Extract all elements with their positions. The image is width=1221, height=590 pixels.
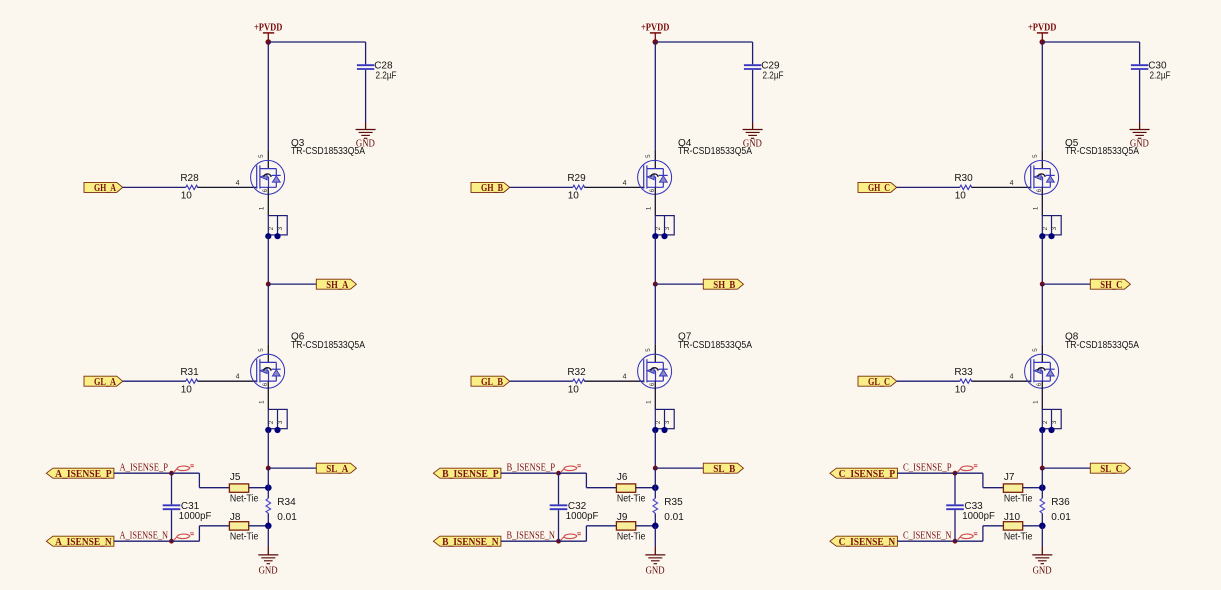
pin Q3 drain (pin 5) bbox=[267, 150, 269, 168]
svg-text:Net-Tie: Net-Tie bbox=[617, 532, 646, 543]
junction R34 top bbox=[265, 484, 272, 491]
port SL_A bbox=[316, 463, 356, 473]
junction SL_B node bbox=[653, 466, 658, 471]
svg-text:0.01: 0.01 bbox=[277, 512, 297, 523]
net tie J7 bbox=[1003, 484, 1022, 492]
svg-text:3: 3 bbox=[1051, 420, 1058, 424]
svg-text:Net-Tie: Net-Tie bbox=[230, 493, 259, 504]
wire R36 bottom to GND bbox=[1041, 526, 1043, 555]
wire R36 to J10 junction bbox=[1041, 513, 1043, 526]
svg-text:2: 2 bbox=[655, 226, 662, 230]
svg-text:TR-CSD18533Q5A: TR-CSD18533Q5A bbox=[678, 146, 752, 157]
svg-text:2: 2 bbox=[655, 420, 662, 424]
junction Q4 source pins bbox=[652, 233, 667, 239]
svg-text:A_ISENSE_P: A_ISENSE_P bbox=[120, 463, 169, 474]
transistor Q4 symbol bbox=[638, 160, 672, 194]
svg-text:0.01: 0.01 bbox=[1051, 512, 1071, 523]
svg-text:GL_B: GL_B bbox=[481, 377, 503, 388]
svg-text:3: 3 bbox=[277, 420, 284, 424]
svg-text:R33: R33 bbox=[954, 367, 973, 378]
svg-text:2.2µF: 2.2µF bbox=[1150, 71, 1171, 82]
power +PVDD (phase B) bbox=[641, 21, 670, 39]
ground GND (below C28) bbox=[356, 130, 376, 150]
svg-text:3: 3 bbox=[664, 226, 671, 230]
wire R35 to J9 junction bbox=[654, 513, 656, 526]
wire A_ISENSE_P port to junction bbox=[114, 472, 172, 474]
port GL_A bbox=[84, 376, 123, 386]
svg-text:R31: R31 bbox=[180, 367, 199, 378]
resistor R36 (shunt) bbox=[1040, 498, 1045, 513]
pin Q3 source (pin 1) bbox=[267, 187, 269, 215]
pin Q4 source (pin 1) bbox=[654, 187, 656, 215]
source pins 2-3 tie (Q8) bbox=[1042, 409, 1061, 428]
svg-text:SL_B: SL_B bbox=[713, 464, 735, 475]
net tie J5 bbox=[229, 484, 248, 492]
wire C28 to GND bbox=[365, 70, 367, 130]
wire GH_C to R30 bbox=[897, 186, 960, 188]
pin Q7 drain (pin 5) bbox=[654, 344, 656, 362]
port B_ISENSE_N bbox=[433, 536, 501, 546]
svg-text:2: 2 bbox=[1042, 226, 1049, 230]
wire J9 to R35 bottom bbox=[636, 525, 656, 527]
junction R36 bottom bbox=[1039, 523, 1046, 530]
svg-text:0.01: 0.01 bbox=[664, 512, 684, 523]
wire R35 bottom to GND bbox=[654, 526, 656, 555]
net tie J10 bbox=[1003, 522, 1022, 530]
differential pair directive (A_ISENSE_P) bbox=[174, 466, 190, 472]
junction R34 bottom bbox=[265, 523, 272, 530]
svg-text:10: 10 bbox=[181, 384, 193, 395]
differential pair directive (A_ISENSE_N) bbox=[174, 534, 190, 540]
capacitor C31 bbox=[163, 473, 181, 541]
wire A_ISENSE_P node to J5 bbox=[172, 473, 230, 488]
wire C_ISENSE_P port to junction bbox=[897, 472, 955, 474]
wire +PVDD node to Q5 drain bbox=[1041, 42, 1043, 150]
svg-text:SL_C: SL_C bbox=[1100, 464, 1122, 475]
port GH_C bbox=[858, 182, 897, 192]
svg-text:B_ISENSE_N: B_ISENSE_N bbox=[442, 537, 499, 548]
wire R30 to Q5 gate bbox=[971, 186, 1031, 188]
ground GND (below R36) bbox=[1032, 555, 1052, 577]
junction R36 top bbox=[1039, 484, 1046, 491]
svg-text:R35: R35 bbox=[664, 497, 683, 508]
svg-text:GH_B: GH_B bbox=[481, 183, 503, 194]
svg-text:GL_A: GL_A bbox=[94, 377, 116, 388]
source pins 2-3 tie (Q5) bbox=[1042, 216, 1061, 235]
wire GH_B to R29 bbox=[510, 186, 573, 188]
svg-text:+PVDD: +PVDD bbox=[254, 21, 283, 33]
wire C29 to GND bbox=[752, 70, 754, 130]
wire SH_B node to port bbox=[655, 283, 703, 285]
svg-text:TR-CSD18533Q5A: TR-CSD18533Q5A bbox=[1065, 340, 1139, 351]
svg-text:TR-CSD18533Q5A: TR-CSD18533Q5A bbox=[1065, 146, 1139, 157]
resistor R29 bbox=[573, 185, 585, 189]
svg-text:4: 4 bbox=[623, 180, 627, 187]
svg-text:TR-CSD18533Q5A: TR-CSD18533Q5A bbox=[291, 146, 365, 157]
transistor Q3 symbol bbox=[251, 160, 285, 194]
pin Q8 source (pin 1) bbox=[1041, 381, 1043, 409]
pin Q5 source (pin 1) bbox=[1041, 187, 1043, 215]
wire B_ISENSE_P port to junction bbox=[501, 472, 559, 474]
wire SL_B node to R35 bbox=[654, 468, 656, 498]
wire +PVDD node to C30 bbox=[1042, 42, 1139, 64]
junction +PVDD node C bbox=[1040, 39, 1046, 45]
junction A_ISENSE_N node bbox=[169, 539, 174, 544]
transistor Q7 symbol bbox=[638, 354, 672, 388]
resistor R31 bbox=[186, 379, 198, 383]
svg-text:R30: R30 bbox=[954, 173, 973, 184]
ground GND (below C30) bbox=[1130, 130, 1150, 150]
resistor R28 bbox=[186, 185, 198, 189]
svg-text:SH_C: SH_C bbox=[1100, 280, 1122, 291]
wire Q8 source to SL_C node bbox=[1041, 430, 1043, 468]
svg-text:GND: GND bbox=[259, 566, 278, 577]
junction SH_A node bbox=[266, 282, 271, 287]
junction Q5 source pins bbox=[1039, 233, 1054, 239]
port SH_B bbox=[703, 279, 743, 289]
port C_ISENSE_N bbox=[830, 536, 898, 546]
svg-text:J8: J8 bbox=[230, 512, 241, 523]
ground GND (below R34) bbox=[258, 555, 278, 577]
port SL_C bbox=[1090, 463, 1130, 473]
svg-text:10: 10 bbox=[568, 384, 580, 395]
svg-text:1000pF: 1000pF bbox=[179, 511, 212, 522]
wire Q6 source to SL_A node bbox=[267, 430, 269, 468]
junction SL_A node bbox=[266, 466, 271, 471]
wire SL_A node to R34 bbox=[267, 468, 269, 498]
svg-text:B_ISENSE_P: B_ISENSE_P bbox=[442, 469, 499, 480]
resistor R34 (shunt) bbox=[266, 498, 271, 513]
transistor Q5 symbol bbox=[1025, 160, 1059, 194]
svg-text:2.2µF: 2.2µF bbox=[763, 71, 784, 82]
svg-text:10: 10 bbox=[568, 191, 580, 202]
capacitor C29 bbox=[744, 65, 761, 69]
net tie J8 bbox=[229, 522, 248, 530]
wire +PVDD node to C29 bbox=[655, 42, 752, 64]
junction Q6 source pins bbox=[265, 427, 280, 433]
svg-text:J5: J5 bbox=[230, 472, 241, 483]
svg-text:TR-CSD18533Q5A: TR-CSD18533Q5A bbox=[291, 340, 365, 351]
pin Q4 drain (pin 5) bbox=[654, 150, 656, 168]
svg-text:Net-Tie: Net-Tie bbox=[1004, 532, 1033, 543]
wire R31 to Q6 gate bbox=[197, 380, 257, 382]
wire J10 to R36 bottom bbox=[1023, 525, 1043, 527]
svg-text:C_ISENSE_P: C_ISENSE_P bbox=[839, 469, 896, 480]
wire Q3 source to SH_A node bbox=[267, 236, 269, 284]
svg-text:GH_A: GH_A bbox=[94, 183, 116, 194]
pin Q6 source (pin 1) bbox=[267, 381, 269, 409]
capacitor C32 bbox=[550, 473, 568, 541]
wire SL_A node to port bbox=[268, 467, 316, 469]
svg-text:3: 3 bbox=[1051, 226, 1058, 230]
svg-text:B_ISENSE_P: B_ISENSE_P bbox=[507, 463, 556, 474]
svg-text:5: 5 bbox=[645, 154, 652, 158]
wire SH_C node to port bbox=[1042, 283, 1090, 285]
capacitor C33 bbox=[946, 473, 964, 541]
svg-text:4: 4 bbox=[236, 374, 240, 381]
wire B_ISENSE_N port to junction bbox=[501, 540, 559, 542]
port A_ISENSE_N bbox=[46, 536, 114, 546]
resistor R32 bbox=[573, 379, 585, 383]
wire GH_A to R28 bbox=[123, 186, 186, 188]
wire B_ISENSE_N node to J9 bbox=[559, 526, 617, 541]
wire SH_C node to Q8 drain bbox=[1041, 284, 1043, 344]
ground GND (below R35) bbox=[645, 555, 665, 577]
junction C_ISENSE_P node bbox=[953, 471, 958, 476]
svg-text:GND: GND bbox=[646, 566, 665, 577]
wire J6 to R35 top bbox=[636, 487, 656, 489]
capacitor C28 bbox=[357, 65, 374, 69]
port SH_A bbox=[316, 279, 356, 289]
svg-text:Net-Tie: Net-Tie bbox=[230, 532, 259, 543]
port GH_A bbox=[84, 182, 123, 192]
svg-text:4: 4 bbox=[1010, 374, 1014, 381]
port C_ISENSE_P bbox=[830, 468, 898, 478]
resistor R30 bbox=[960, 185, 972, 189]
svg-text:4: 4 bbox=[236, 180, 240, 187]
source pins 2-3 tie (Q6) bbox=[268, 409, 287, 428]
svg-text:TR-CSD18533Q5A: TR-CSD18533Q5A bbox=[678, 340, 752, 351]
junction R35 bottom bbox=[652, 523, 659, 530]
source pins 2-3 tie (Q3) bbox=[268, 216, 287, 235]
net tie J6 bbox=[616, 484, 635, 492]
wire R34 bottom to GND bbox=[267, 526, 269, 555]
svg-text:5: 5 bbox=[1032, 154, 1039, 158]
wire J8 to R34 bottom bbox=[249, 525, 269, 527]
junction Q3 source pins bbox=[265, 233, 280, 239]
port B_ISENSE_P bbox=[433, 468, 501, 478]
wire SL_C node to port bbox=[1042, 467, 1090, 469]
wire +PVDD node to Q3 drain bbox=[267, 42, 269, 150]
svg-text:J7: J7 bbox=[1004, 472, 1015, 483]
pin Q6 drain (pin 5) bbox=[267, 344, 269, 362]
wire SH_A node to Q6 drain bbox=[267, 284, 269, 344]
svg-text:5: 5 bbox=[645, 348, 652, 352]
svg-text:4: 4 bbox=[1010, 180, 1014, 187]
svg-text:10: 10 bbox=[955, 191, 967, 202]
svg-text:Net-Tie: Net-Tie bbox=[1004, 493, 1033, 504]
differential pair directive (B_ISENSE_N) bbox=[561, 534, 577, 540]
ground GND (below C29) bbox=[743, 130, 763, 150]
pin Q7 source (pin 1) bbox=[654, 381, 656, 409]
svg-text:J10: J10 bbox=[1004, 512, 1021, 523]
junction +PVDD node B bbox=[653, 39, 659, 45]
junction Q8 source pins bbox=[1039, 427, 1054, 433]
wire SL_C node to R36 bbox=[1041, 468, 1043, 498]
wire R28 to Q3 gate bbox=[197, 186, 257, 188]
wire C_ISENSE_P node to J7 bbox=[955, 473, 1003, 488]
source pins 2-3 tie (Q7) bbox=[655, 409, 674, 428]
wire Q7 source to SL_B node bbox=[654, 430, 656, 468]
pin Q5 drain (pin 5) bbox=[1041, 150, 1043, 168]
transistor Q8 symbol bbox=[1025, 354, 1059, 388]
wire J5 to R34 top bbox=[249, 487, 269, 489]
port GL_C bbox=[858, 376, 897, 386]
svg-text:2: 2 bbox=[1042, 420, 1049, 424]
wire R29 to Q4 gate bbox=[584, 186, 644, 188]
svg-text:SL_A: SL_A bbox=[326, 464, 348, 475]
svg-text:5: 5 bbox=[1032, 348, 1039, 352]
source pins 2-3 tie (Q4) bbox=[655, 216, 674, 235]
junction R35 top bbox=[652, 484, 659, 491]
wire C_ISENSE_N node to J10 bbox=[955, 526, 1003, 541]
svg-text:3: 3 bbox=[664, 420, 671, 424]
junction SH_B node bbox=[653, 282, 658, 287]
svg-text:R28: R28 bbox=[180, 173, 199, 184]
svg-text:4: 4 bbox=[623, 374, 627, 381]
wire Q5 source to SH_C node bbox=[1041, 236, 1043, 284]
junction Q7 source pins bbox=[652, 427, 667, 433]
svg-text:B_ISENSE_N: B_ISENSE_N bbox=[507, 531, 556, 542]
svg-text:SH_A: SH_A bbox=[326, 280, 348, 291]
svg-text:R29: R29 bbox=[567, 173, 586, 184]
wire +PVDD node to Q4 drain bbox=[654, 42, 656, 150]
net tie J9 bbox=[616, 522, 635, 530]
port SH_C bbox=[1090, 279, 1130, 289]
svg-text:C_ISENSE_N: C_ISENSE_N bbox=[839, 537, 896, 548]
wire SH_A node to port bbox=[268, 283, 316, 285]
wire A_ISENSE_N node to J8 bbox=[172, 526, 230, 541]
svg-text:2: 2 bbox=[268, 226, 275, 230]
junction SH_C node bbox=[1040, 282, 1045, 287]
resistor R35 (shunt) bbox=[653, 498, 658, 513]
svg-text:10: 10 bbox=[181, 191, 193, 202]
transistor Q6 symbol bbox=[251, 354, 285, 388]
svg-text:GL_C: GL_C bbox=[868, 377, 890, 388]
pin Q8 drain (pin 5) bbox=[1041, 344, 1043, 362]
differential pair directive (B_ISENSE_P) bbox=[561, 466, 577, 472]
svg-text:GH_C: GH_C bbox=[868, 183, 890, 194]
capacitor C30 bbox=[1131, 65, 1148, 69]
svg-text:C_ISENSE_P: C_ISENSE_P bbox=[903, 463, 952, 474]
resistor R33 bbox=[960, 379, 972, 383]
wire R33 to Q8 gate bbox=[971, 380, 1031, 382]
svg-text:+PVDD: +PVDD bbox=[1028, 21, 1057, 33]
differential pair directive (C_ISENSE_P) bbox=[958, 466, 974, 472]
junction C_ISENSE_N node bbox=[953, 539, 958, 544]
power +PVDD (phase A) bbox=[254, 21, 283, 39]
port GL_B bbox=[471, 376, 510, 386]
wire Q4 source to SH_B node bbox=[654, 236, 656, 284]
svg-text:1: 1 bbox=[258, 206, 265, 210]
svg-text:R36: R36 bbox=[1051, 497, 1070, 508]
svg-text:3: 3 bbox=[277, 226, 284, 230]
svg-text:+PVDD: +PVDD bbox=[641, 21, 670, 33]
junction +PVDD node A bbox=[266, 39, 272, 45]
svg-text:1: 1 bbox=[1032, 400, 1039, 404]
wire C_ISENSE_N port to junction bbox=[897, 540, 955, 542]
svg-text:10: 10 bbox=[955, 384, 967, 395]
wire SL_B node to port bbox=[655, 467, 703, 469]
svg-text:A_ISENSE_N: A_ISENSE_N bbox=[120, 531, 169, 542]
wire GL_B to R32 bbox=[510, 380, 573, 382]
svg-text:1: 1 bbox=[645, 400, 652, 404]
wire B_ISENSE_P node to J6 bbox=[559, 473, 617, 488]
svg-text:R32: R32 bbox=[567, 367, 586, 378]
svg-text:1: 1 bbox=[258, 400, 265, 404]
svg-text:Net-Tie: Net-Tie bbox=[617, 493, 646, 504]
svg-text:A_ISENSE_N: A_ISENSE_N bbox=[55, 537, 112, 548]
wire J7 to R36 top bbox=[1023, 487, 1043, 489]
wire GL_A to R31 bbox=[123, 380, 186, 382]
svg-text:J9: J9 bbox=[617, 512, 628, 523]
wire +PVDD node to C28 bbox=[268, 42, 365, 64]
junction B_ISENSE_P node bbox=[556, 471, 561, 476]
port GH_B bbox=[471, 182, 510, 192]
svg-text:SH_B: SH_B bbox=[713, 280, 735, 291]
svg-text:C_ISENSE_N: C_ISENSE_N bbox=[903, 531, 952, 542]
svg-text:5: 5 bbox=[258, 154, 265, 158]
wire C30 to GND bbox=[1139, 70, 1141, 130]
svg-text:GND: GND bbox=[1033, 566, 1052, 577]
wire SH_B node to Q7 drain bbox=[654, 284, 656, 344]
svg-text:2: 2 bbox=[268, 420, 275, 424]
svg-text:1000pF: 1000pF bbox=[962, 511, 995, 522]
junction SL_C node bbox=[1040, 466, 1045, 471]
svg-text:2.2µF: 2.2µF bbox=[376, 71, 397, 82]
junction B_ISENSE_N node bbox=[556, 539, 561, 544]
port A_ISENSE_P bbox=[46, 468, 114, 478]
power +PVDD (phase C) bbox=[1028, 21, 1057, 39]
junction A_ISENSE_P node bbox=[169, 471, 174, 476]
svg-text:J6: J6 bbox=[617, 472, 628, 483]
svg-text:1: 1 bbox=[1032, 206, 1039, 210]
differential pair directive (C_ISENSE_N) bbox=[958, 534, 974, 540]
svg-text:R34: R34 bbox=[277, 497, 296, 508]
wire GL_C to R33 bbox=[897, 380, 960, 382]
svg-text:1: 1 bbox=[645, 206, 652, 210]
wire R34 to J8 junction bbox=[267, 513, 269, 526]
wire A_ISENSE_N port to junction bbox=[114, 540, 172, 542]
port SL_B bbox=[703, 463, 743, 473]
wire R32 to Q7 gate bbox=[584, 380, 644, 382]
svg-text:1000pF: 1000pF bbox=[566, 511, 599, 522]
svg-text:A_ISENSE_P: A_ISENSE_P bbox=[55, 469, 112, 480]
svg-text:5: 5 bbox=[258, 348, 265, 352]
